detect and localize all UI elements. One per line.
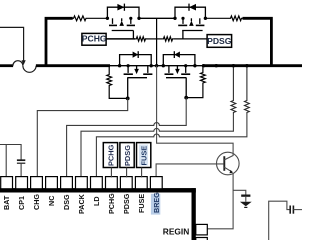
resistor (CHG gate-source) — [108, 66, 110, 74]
svg-text:CP1: CP1 — [17, 196, 26, 210]
svg-text:PDSG: PDSG — [207, 36, 232, 46]
node PCHG rotated net box — [103, 143, 117, 168]
wire: PCHG box to PCHG FET gate — [106, 38, 135, 40]
transistor Q1 PCHG P-FET body-diode loop — [107, 7, 139, 18]
PCHG net label box — [82, 33, 106, 45]
wire: CHG gate-source resistor to gate node — [109, 87, 128, 99]
svg-text:NC: NC — [47, 196, 56, 206]
pin 6 PACK — [76, 177, 88, 190]
battery pack box (top-left, partially off-screen) — [0, 27, 24, 60]
node dot on rail at DSG resistor — [202, 64, 205, 67]
wire: PCHG box to pin 8 — [110, 168, 112, 178]
svg-text:DSG: DSG — [62, 194, 71, 210]
wire: top rail segment to PCHG FET — [87, 17, 107, 19]
resistor (DSG gate-source) — [202, 66, 204, 72]
pin 8 PCHG — [106, 177, 118, 190]
wire: CHG pin to CHG FET gate — [37, 98, 127, 177]
wire: PACK pin to PACK sense resistor (hops mid vertical) — [81, 114, 233, 178]
node CHG gate — [126, 97, 130, 101]
node FUSE rotated net box — [137, 143, 151, 168]
wire: gate net to PDSG box — [174, 38, 208, 40]
wire: rail through main FETs — [110, 65, 204, 67]
wire: thick corner from top rail down to PACK+ rail — [243, 18, 272, 66]
capacitor C3 (series on load box wire) — [289, 206, 291, 214]
svg-text:PCHG: PCHG — [106, 144, 115, 166]
wire: gate net crossing mid vertical — [147, 38, 163, 40]
svg-text:BAT: BAT — [2, 195, 11, 210]
diode D2 (body diode of PDSG FET, pointing left) — [189, 4, 196, 11]
arrow into connector from battery box — [22, 60, 26, 65]
PDSG net label box — [207, 35, 232, 48]
resistor (PACK sense) — [231, 100, 236, 114]
svg-text:PCHG: PCHG — [107, 193, 116, 214]
wire: top rail between PCHG and PDSG FETs — [139, 17, 175, 19]
node PDSG rotated net box — [120, 143, 134, 168]
transistor Q2 PDSG P-FET symbol — [178, 18, 204, 39]
resistor (PDSG gate) — [162, 37, 173, 41]
wire: REGIN pin to transistor emitter — [208, 174, 234, 229]
resistor (LD sense) — [245, 100, 250, 114]
pin 1 BAT — [1, 177, 13, 190]
wire: DSG pin to DSG FET gate (hops mid vertical) — [67, 98, 187, 178]
svg-text:PCHG: PCHG — [82, 34, 107, 44]
node DSG gate — [184, 96, 188, 100]
svg-text:REGIN: REGIN — [163, 227, 190, 237]
ground — [240, 202, 252, 206]
node dot common source — [155, 64, 158, 67]
node dots on top rail at PDSG FET — [173, 17, 176, 20]
svg-text:PACK: PACK — [77, 193, 86, 214]
wire: FUSE box to pin 10 — [141, 168, 143, 178]
transistor Q1 PCHG P-FET symbol — [109, 18, 135, 39]
svg-text:LD: LD — [92, 196, 101, 206]
diode D1 (body diode of PCHG FET, pointing right) — [117, 4, 124, 11]
svg-text:FUSE: FUSE — [140, 146, 149, 166]
transistor Q5 NPN (BREG pass) — [217, 152, 240, 175]
capacitor C1 (CP1 charge pump) — [17, 159, 25, 161]
resistor (predischarge series, top-right) — [230, 16, 243, 21]
node dot on PACK rail — [215, 64, 218, 67]
pin 11 BREG — [150, 177, 162, 190]
transistor Q4 DSG N-FET symbol — [165, 66, 191, 98]
chip bar over pin bottoms — [0, 188, 196, 192]
wire: mid vertical from top rail to common node — [156, 18, 158, 65]
pin 3 CHG — [31, 177, 43, 190]
svg-text:PDSG: PDSG — [122, 193, 131, 214]
svg-text:FUSE: FUSE — [137, 194, 146, 213]
pin label BREG (highlighted) — [151, 194, 160, 215]
pin 10 FUSE — [135, 177, 147, 190]
pin 7 LD — [91, 177, 103, 190]
pin 2 CP1 — [16, 177, 28, 190]
svg-text:CHG: CHG — [32, 194, 41, 210]
wire: BREG pin to transistor base — [156, 164, 223, 177]
svg-text:PDSG: PDSG — [123, 145, 132, 166]
transistor Q3 CHG N-FET symbol — [124, 66, 153, 99]
node dots on rail at DSG FET — [162, 64, 165, 67]
wire: mid vertical down to transistor collector — [157, 66, 234, 153]
load box (bottom-right, partially off-screen) — [269, 201, 290, 240]
wire: main thick rail left (BAT+) — [0, 64, 13, 67]
wire: PDSG box to pin 9 — [126, 168, 128, 178]
svg-text:BREG: BREG — [152, 192, 161, 213]
REGIN pin (right side of chip) — [196, 224, 208, 235]
transistor Q3 CHG N-FET body-diode loop — [120, 55, 152, 66]
capacitor C2 (REGIN decoupling) — [241, 195, 250, 197]
connector (interlocking arcs on BAT+ rail) — [13, 61, 23, 66]
wire: main thick rail to CHG FET — [36, 64, 110, 67]
pin 4 NC — [46, 177, 58, 190]
wire: emitter tap to decoupling cap — [233, 190, 246, 194]
node dots on top rail at PCHG FET — [106, 17, 109, 20]
wire: top rail right segment — [205, 17, 229, 19]
wire: main thick rail right (PACK+) — [204, 64, 303, 67]
resistor (PCHG gate) — [135, 37, 146, 41]
wire: LD pin to LD sense resistor (hops mid vertical) — [96, 114, 247, 178]
transistor Q2 PDSG P-FET body-diode loop — [175, 7, 205, 18]
resistor (precharge series, top-left) — [73, 16, 88, 21]
wire: BAT net to BAT pin and CP1 cap — [0, 145, 21, 161]
transistor Q4 DSG N-FET body-diode loop — [163, 55, 195, 66]
diode D3 (body diode of CHG FET, pointing right) — [133, 52, 139, 58]
pin 9 PDSG — [120, 177, 132, 190]
op-amp U1 chip body (battery protector IC, partially off-screen) — [0, 188, 196, 192]
diode D4 (body diode of DSG FET, pointing left) — [174, 52, 180, 58]
pin 5 DSG — [61, 177, 73, 190]
wire: DSG gate-source resistor to gate node — [186, 84, 203, 98]
pin stub below REGIN (clipped at bottom edge) — [196, 238, 208, 240]
node dots on rail at CHG FET — [118, 64, 121, 67]
wire: thick BAT+ corner to top precharge rail — [46, 18, 73, 66]
